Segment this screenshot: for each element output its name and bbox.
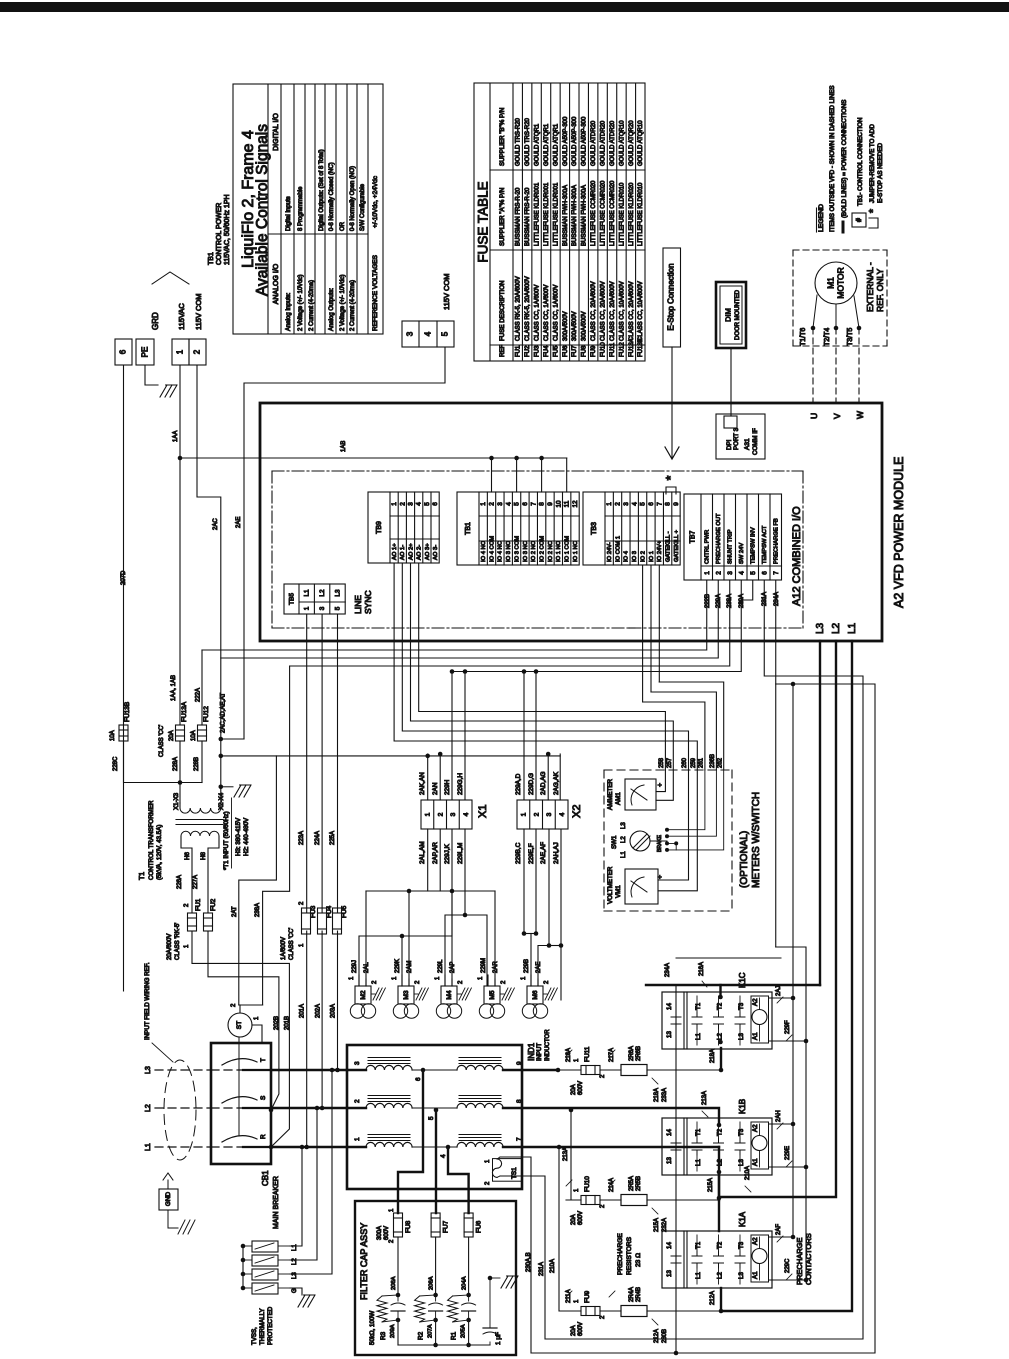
svg-text:GATEKILL +: GATEKILL + [674, 529, 680, 562]
svg-text:PRECHARGE FB: PRECHARGE FB [774, 518, 780, 564]
DIM door mounted box [716, 282, 746, 348]
svg-text:LITTLEFUSE KLDR001: LITTLEFUSE KLDR001 [544, 182, 550, 246]
wire FU11 to resistor 2R6A [600, 1069, 621, 1071]
svg-text:9: 9 [673, 502, 680, 506]
svg-text:L2: L2 [319, 589, 326, 597]
svg-text:M1: M1 [826, 277, 836, 289]
svg-text:FU9: FU9 [584, 1290, 591, 1303]
svg-text:2 Current (4-20ma): 2 Current (4-20ma) [350, 280, 356, 331]
wire 1AA [179, 365, 181, 725]
svg-text:FU10: FU10 [600, 342, 606, 357]
fan M4 ground [457, 993, 461, 995]
svg-text:FU2: FU2 [525, 345, 531, 357]
svg-text:228A: 228A [173, 757, 179, 771]
filter ground [490, 1277, 500, 1279]
svg-text:7: 7 [530, 502, 537, 506]
terminal 6 [115, 339, 132, 365]
wire PE to ground [145, 365, 158, 385]
svg-text:229E,F: 229E,F [528, 843, 535, 864]
svg-text:230B: 230B [662, 1329, 668, 1343]
wire resistor out [647, 1199, 719, 1201]
svg-text:FU3: FU3 [534, 345, 540, 357]
svg-text:W: W [855, 411, 865, 419]
svg-text:20A: 20A [571, 1325, 577, 1336]
svg-text:GOULD ATQR1: GOULD ATQR1 [544, 123, 550, 166]
svg-text:A1: A1 [752, 1158, 759, 1166]
svg-text:CLASS 'CC': CLASS 'CC' [289, 928, 295, 960]
terminal 1 [172, 339, 189, 365]
inductor IND1 box [347, 1045, 522, 1189]
svg-text:FILTER CAP ASSY: FILTER CAP ASSY [359, 1223, 369, 1300]
svg-text:R3: R3 [380, 1331, 387, 1340]
svg-text:4: 4 [416, 502, 423, 506]
svg-text:(5kVA, 120V, 43.5A): (5kVA, 120V, 43.5A) [156, 825, 163, 880]
wire 230B long vertical [675, 992, 677, 1353]
svg-text:TB3: TB3 [591, 522, 598, 535]
svg-text:2 Voltage (+/- 10Vdc): 2 Voltage (+/- 10Vdc) [298, 274, 304, 331]
bold wire K1B through [717, 1123, 722, 1128]
svg-text:3: 3 [450, 812, 457, 816]
wires TB3 IO to meters [642, 565, 644, 702]
wire FU9 to resistor 2R4A [600, 1310, 621, 1312]
svg-text:AO 1-: AO 1- [400, 545, 406, 560]
bold wire L1 output [721, 641, 852, 1311]
svg-text:INPUT FIELD WIRING REF.: INPUT FIELD WIRING REF. [144, 962, 151, 1040]
svg-text:M3: M3 [403, 990, 410, 999]
module A31 COMM IF [716, 414, 765, 459]
breaker trip linkage [238, 1037, 240, 1136]
svg-text:229C: 229C [785, 1258, 791, 1273]
wire 2AC,AD,AE,AT junction [219, 737, 224, 742]
svg-text:S: S [260, 1096, 267, 1100]
svg-text:260: 260 [682, 757, 688, 768]
svg-text:5: 5 [640, 502, 647, 506]
svg-text:GND: GND [165, 1192, 172, 1207]
svg-text:GOULD ATQR1: GOULD ATQR1 [534, 123, 540, 166]
svg-text:300A/500V: 300A/500V [572, 311, 578, 341]
svg-text:LITTLEFUSE CCMR020: LITTLEFUSE CCMR020 [591, 180, 597, 246]
transformer T1 primary [181, 831, 219, 836]
svg-text:600V: 600V [578, 1211, 584, 1225]
switch SW1 [630, 831, 650, 851]
inductor coil left ph1147 [368, 1140, 410, 1142]
svg-text:2R6A: 2R6A [629, 1046, 635, 1061]
svg-text:5: 5 [335, 606, 342, 610]
svg-text:2AF: 2AF [776, 1224, 782, 1235]
svg-text:14: 14 [666, 1003, 673, 1010]
contactor K1C box [662, 992, 772, 1049]
svg-text:R2: R2 [418, 1331, 425, 1340]
svg-text:S/W Configurable: S/W Configurable [360, 183, 366, 231]
svg-text:L3: L3 [145, 1066, 152, 1074]
fan M2 leads [358, 975, 360, 986]
legend bold lines [842, 222, 845, 232]
svg-text:230A,B: 230A,B [526, 1252, 532, 1272]
inductor coil right ph1147 [459, 1140, 501, 1142]
svg-text:T1: T1 [695, 1128, 702, 1136]
bold wire L2 output [719, 641, 836, 1197]
svg-text:GOULD ATDR20: GOULD ATDR20 [591, 120, 597, 166]
svg-text:FU7: FU7 [443, 1220, 450, 1233]
svg-text:M6: M6 [532, 990, 539, 999]
svg-text:DOOR MOUNTED: DOOR MOUNTED [735, 289, 741, 340]
svg-text:6: 6 [522, 502, 529, 506]
wire R3 to bus [397, 1320, 399, 1345]
svg-text:L3: L3 [738, 1159, 745, 1166]
svg-text:A2: A2 [752, 1237, 759, 1245]
svg-text:2AH,AJ: 2AH,AJ [553, 842, 560, 864]
svg-text:GOULD ATQR10: GOULD ATQR10 [619, 120, 625, 166]
capacitor 468.6 [462, 1303, 476, 1305]
svg-text:2AN: 2AN [432, 782, 439, 795]
transformer T1 ground [221, 786, 233, 788]
svg-text:212A: 212A [710, 1291, 716, 1305]
svg-text:FU11: FU11 [610, 342, 616, 357]
svg-text:229A: 229A [716, 594, 722, 608]
svg-text:13: 13 [666, 1157, 673, 1164]
svg-text:213A: 213A [702, 1091, 708, 1105]
svg-text:1: 1 [391, 502, 398, 506]
svg-text:5: 5 [428, 1116, 435, 1120]
svg-text:T2: T2 [717, 1002, 724, 1010]
svg-text:AO 3+: AO 3+ [425, 543, 431, 560]
svg-text:LITTLEFUSE CCMR020: LITTLEFUSE CCMR020 [600, 180, 606, 246]
svg-text:L3: L3 [738, 1033, 745, 1040]
svg-text:10A: 10A [191, 730, 197, 741]
svg-text:1AA: 1AA [173, 431, 179, 442]
svg-text:L1: L1 [695, 1033, 702, 1040]
fan M3 leads [401, 975, 403, 986]
svg-text:7: 7 [773, 571, 780, 575]
svg-text:#: # [856, 218, 863, 222]
wire ST 1 to breaker [252, 1025, 262, 1043]
wire DIM to A31 [730, 348, 732, 416]
svg-text:261: 261 [699, 757, 705, 768]
svg-text:GRD: GRD [151, 312, 160, 330]
wire 231A [500, 580, 863, 1339]
svg-text:CLASS CC, 1A/600V: CLASS CC, 1A/600V [544, 285, 550, 341]
svg-text:2AR: 2AR [493, 961, 499, 973]
svg-text:13: 13 [666, 1270, 673, 1277]
wire AO2- to meters 258 [419, 563, 666, 770]
svg-text:7: 7 [656, 502, 663, 506]
svg-text:G: G [292, 1288, 298, 1293]
svg-text:227A: 227A [193, 875, 199, 889]
svg-text:2AG,AK: 2AG,AK [553, 771, 560, 795]
fuse FU3 [306, 614, 308, 913]
filter cap assy box [355, 1201, 516, 1355]
svg-text:CLASS CC, 20A/600V: CLASS CC, 20A/600V [600, 281, 606, 341]
svg-text:226A: 226A [177, 875, 183, 889]
svg-text:2AE,AF: 2AE,AF [540, 842, 547, 864]
svg-text:13: 13 [666, 1031, 673, 1038]
svg-text:SHUNT TRIP: SHUNT TRIP [728, 529, 734, 564]
inductor interconnect wires [347, 1069, 366, 1071]
svg-text:GOULD A50P-300: GOULD A50P-300 [582, 116, 588, 166]
svg-text:DPI: DPI [726, 439, 733, 450]
svg-text:LITTLEFUSE KLDR001: LITTLEFUSE KLDR001 [553, 182, 559, 246]
svg-text:LINE: LINE [353, 595, 363, 614]
svg-text:CONTROL POWER: CONTROL POWER [216, 203, 223, 265]
wire FU10 to resistor 2R5A [600, 1199, 621, 1201]
wire voltmeter minus 259 [658, 770, 697, 891]
svg-text:2: 2 [715, 571, 722, 575]
fuse FU11 precharge [581, 1066, 600, 1075]
svg-text:PORT 3: PORT 3 [733, 427, 740, 450]
transformer T1 core [176, 819, 223, 821]
svg-text:H6: H6 [184, 852, 191, 860]
svg-text:(OPTIONAL): (OPTIONAL) [739, 831, 750, 888]
wire ammeter plus 258 [656, 770, 665, 792]
svg-text:IO 24V+: IO 24V+ [657, 540, 663, 562]
svg-text:229F: 229F [785, 1020, 791, 1034]
svg-text:231A: 231A [762, 592, 768, 606]
connector X1 [421, 800, 472, 829]
svg-text:A1: A1 [752, 1271, 759, 1279]
svg-text:L2: L2 [831, 622, 842, 634]
contactor K1B coil [751, 1122, 769, 1169]
svg-text:AM1: AM1 [615, 792, 622, 805]
svg-text:T1: T1 [139, 872, 146, 880]
svg-text:202B: 202B [274, 1016, 280, 1030]
svg-text:4: 4 [631, 502, 638, 506]
GND earth symbol [168, 1210, 178, 1228]
meter stair wires from TB3 [643, 702, 705, 770]
svg-text:E-STOP AS NEEDED: E-STOP AS NEEDED [877, 143, 884, 203]
svg-text:231A: 231A [539, 1262, 545, 1276]
svg-text:600V: 600V [578, 1322, 584, 1336]
svg-text:8: 8 [539, 502, 546, 506]
svg-text:L3: L3 [292, 1272, 298, 1279]
svg-text:218A: 218A [654, 1088, 660, 1102]
coil wires K1C [769, 997, 794, 999]
svg-text:L2: L2 [717, 1033, 724, 1040]
svg-text:2AK,AN: 2AK,AN [419, 772, 426, 795]
svg-text:FU13B: FU13B [124, 702, 131, 722]
svg-text:X2: X2 [571, 805, 583, 818]
legend control connection [852, 213, 866, 227]
wire ST to 238A [239, 1005, 241, 1013]
contactor K1A coil [751, 1235, 769, 1282]
wire fan M6 supply 229B [530, 934, 532, 987]
svg-text:2R5A: 2R5A [629, 1176, 635, 1191]
svg-text:FU1: FU1 [195, 898, 202, 911]
svg-text:229H: 229H [444, 779, 451, 795]
svg-text:11: 11 [564, 500, 571, 507]
wire fans return bus 2AL,AM,2AP,AR [366, 890, 495, 892]
inductor coil left ph1070 [368, 1063, 410, 1065]
wire 2AE [244, 347, 445, 739]
input cable ellipse [164, 1060, 196, 1160]
precharge branch K1C FU11 [556, 1068, 561, 1073]
voltmeter VM1 [625, 869, 658, 904]
svg-text:257: 257 [667, 757, 673, 768]
svg-text:GATEKILL -: GATEKILL - [665, 531, 671, 562]
wire 229 distribution [451, 672, 453, 801]
svg-text:216A: 216A [699, 962, 705, 976]
coil wires K1A [769, 1236, 794, 1238]
svg-text:218A: 218A [710, 1049, 716, 1063]
svg-text:215A: 215A [708, 1178, 714, 1192]
svg-text:2AJ: 2AJ [776, 986, 782, 996]
svg-text:300A/500V: 300A/500V [563, 311, 569, 341]
svg-text:TEMPSW ACT: TEMPSW ACT [762, 525, 768, 564]
jumper box [666, 487, 676, 494]
svg-text:IO 1 COM: IO 1 COM [565, 536, 571, 562]
svg-text:T2: T2 [717, 1241, 724, 1249]
svg-text:ST: ST [236, 1021, 243, 1029]
svg-text:8 Programmable: 8 Programmable [298, 186, 304, 231]
svg-text:3: 3 [406, 331, 415, 336]
svg-text:INDUCTOR: INDUCTOR [545, 1029, 551, 1061]
svg-text:2: 2 [437, 812, 444, 816]
bold midtap feeds to filter fuses [398, 1070, 423, 1213]
svg-text:234A: 234A [774, 592, 780, 606]
svg-text:CB1: CB1 [261, 1170, 270, 1186]
svg-text:IO 2 NC: IO 2 NC [548, 541, 554, 562]
svg-text:T1: T1 [695, 1241, 702, 1249]
svg-text:1 μF: 1 μF [495, 1332, 502, 1345]
svg-text:IND1: IND1 [527, 1042, 536, 1061]
fan M6 leads [530, 975, 532, 986]
svg-text:2AP: 2AP [450, 962, 456, 973]
svg-text:2: 2 [354, 1099, 361, 1103]
resistor R3 [377, 1296, 387, 1322]
svg-text:TEMPSW INV: TEMPSW INV [751, 527, 757, 564]
svg-text:210A: 210A [745, 1166, 751, 1180]
svg-text:IO 3 COM: IO 3 COM [514, 536, 520, 562]
svg-text:PRECHARGE OUT: PRECHARGE OUT [716, 513, 722, 564]
svg-text:CLASS 'CC': CLASS 'CC' [159, 725, 165, 757]
svg-text:FU11: FU11 [584, 1046, 591, 1062]
svg-text:1AB: 1AB [341, 441, 347, 452]
resistor 2R4A 2R4B [621, 1306, 647, 1317]
svg-text:L2: L2 [292, 1258, 298, 1265]
fuse FU12 [201, 650, 203, 725]
svg-text:CLASS CC, 1A/600V: CLASS CC, 1A/600V [534, 285, 540, 341]
svg-text:229D,G: 229D,G [528, 773, 535, 795]
svg-text:14: 14 [666, 1129, 673, 1136]
wires fuse to phase taps 201A/202A/203A [306, 931, 308, 1147]
svg-text:FU3: FU3 [310, 905, 317, 918]
svg-text:BUSSMAN FRS-R-20: BUSSMAN FRS-R-20 [525, 187, 531, 246]
svg-text:+: + [657, 875, 664, 879]
svg-text:ANALOG I/O: ANALOG I/O [273, 263, 280, 304]
svg-text:L1: L1 [847, 622, 858, 634]
svg-text:GOULD ATQR1: GOULD ATQR1 [553, 123, 559, 166]
svg-text:20A/600V: 20A/600V [167, 934, 173, 960]
fan M6 ground [543, 993, 547, 995]
svg-text:229B: 229B [524, 959, 530, 973]
wire resistor out [647, 1069, 719, 1071]
fan M6 [527, 986, 543, 1004]
svg-text:4: 4 [738, 571, 745, 575]
svg-text:1A/600V: 1A/600V [281, 937, 287, 960]
svg-text:3: 3 [408, 502, 415, 506]
svg-text:E-Stop Connection: E-Stop Connection [667, 263, 676, 330]
svg-text:228C: 228C [113, 756, 119, 771]
svg-text:2: 2 [489, 502, 496, 506]
svg-text:FU7: FU7 [572, 345, 578, 357]
svg-text:210A: 210A [550, 1259, 556, 1273]
resistor R2 [415, 1296, 425, 1322]
svg-text:6: 6 [761, 571, 768, 575]
svg-text:14: 14 [666, 1242, 673, 1249]
svg-text:2: 2 [533, 812, 540, 816]
svg-text:A12 COMBINED I/O: A12 COMBINED I/O [791, 506, 803, 606]
fan M5 leads [487, 975, 489, 986]
svg-text:A1: A1 [752, 1032, 759, 1040]
svg-text:FU8: FU8 [582, 345, 588, 357]
svg-text:TB9: TB9 [376, 521, 383, 534]
svg-text:REFERENCE VOLTAGES: REFERENCE VOLTAGES [372, 254, 379, 331]
svg-text:L1: L1 [695, 1272, 702, 1279]
svg-text:PROTECTED: PROTECTED [267, 1306, 274, 1345]
svg-text:3: 3 [497, 502, 504, 506]
svg-text:CONTROL TRANSFORMER: CONTROL TRANSFORMER [148, 800, 155, 880]
node X1-X3 [178, 780, 183, 785]
shunt trip ST [228, 1013, 252, 1037]
svg-text:AO 2-: AO 2- [417, 545, 423, 560]
fuse FU5 [337, 614, 339, 913]
svg-text:AO 1+: AO 1+ [392, 543, 398, 560]
svg-text:2AL,AM: 2AL,AM [419, 841, 426, 864]
svg-text:10A: 10A [110, 730, 116, 741]
svg-text:300A: 300A [377, 1226, 383, 1240]
fan M2 [355, 986, 371, 1004]
svg-text:FU6: FU6 [476, 1220, 483, 1233]
svg-text:IO 1: IO 1 [649, 551, 655, 562]
svg-text:5: 5 [750, 571, 757, 575]
fuse FU7 [431, 1213, 440, 1237]
ground symbol PE [160, 385, 167, 397]
svg-text:Analog Outputs:: Analog Outputs: [329, 288, 335, 331]
svg-text:LITTLEFUSE CCMR020: LITTLEFUSE CCMR020 [610, 180, 616, 246]
wire 234A [500, 580, 875, 1353]
wire K1B precharge tap 213A [571, 1110, 581, 1200]
TVSS ground wire [290, 1288, 302, 1295]
svg-text:8: 8 [516, 1099, 523, 1103]
svg-text:GOULD ATDR20: GOULD ATDR20 [600, 120, 606, 166]
wire AO1- to meters 260 [402, 563, 688, 770]
svg-text:236B: 236B [710, 754, 716, 768]
svg-text:2AT: 2AT [232, 906, 238, 917]
svg-text:AO 3-: AO 3- [433, 545, 439, 560]
svg-text:9: 9 [516, 1061, 523, 1065]
bold wire IND1-7 bus [522, 1146, 719, 1148]
breaker CB1 box [211, 1043, 271, 1164]
border frame [0, 2, 1009, 12]
svg-text:20A: 20A [571, 1214, 577, 1225]
svg-text:L2: L2 [717, 1272, 724, 1279]
svg-text:1: 1 [354, 1137, 361, 1141]
svg-text:GOULD TRS-R20: GOULD TRS-R20 [525, 117, 531, 166]
wire 238A [290, 580, 730, 666]
svg-text:23 Ω: 23 Ω [635, 1253, 642, 1267]
svg-text:2 Current (4-20ma): 2 Current (4-20ma) [309, 280, 315, 331]
svg-text:2AM: 2AM [407, 961, 413, 973]
svg-text:1: 1 [304, 606, 311, 610]
bold wire K1A through [720, 1288, 722, 1311]
svg-text:SW 24V: SW 24V [739, 543, 745, 564]
svg-text:215A: 215A [654, 1218, 660, 1232]
svg-text:IO 1 NC: IO 1 NC [573, 541, 579, 562]
wire AO2+ to meters 257 [411, 563, 674, 770]
svg-text:A2 VFD POWER MODULE: A2 VFD POWER MODULE [892, 457, 906, 608]
svg-text:R: R [260, 1134, 267, 1139]
contactor K1A aux contact 13-14 [683, 1231, 685, 1288]
svg-text:TVSS,: TVSS, [251, 1327, 258, 1345]
